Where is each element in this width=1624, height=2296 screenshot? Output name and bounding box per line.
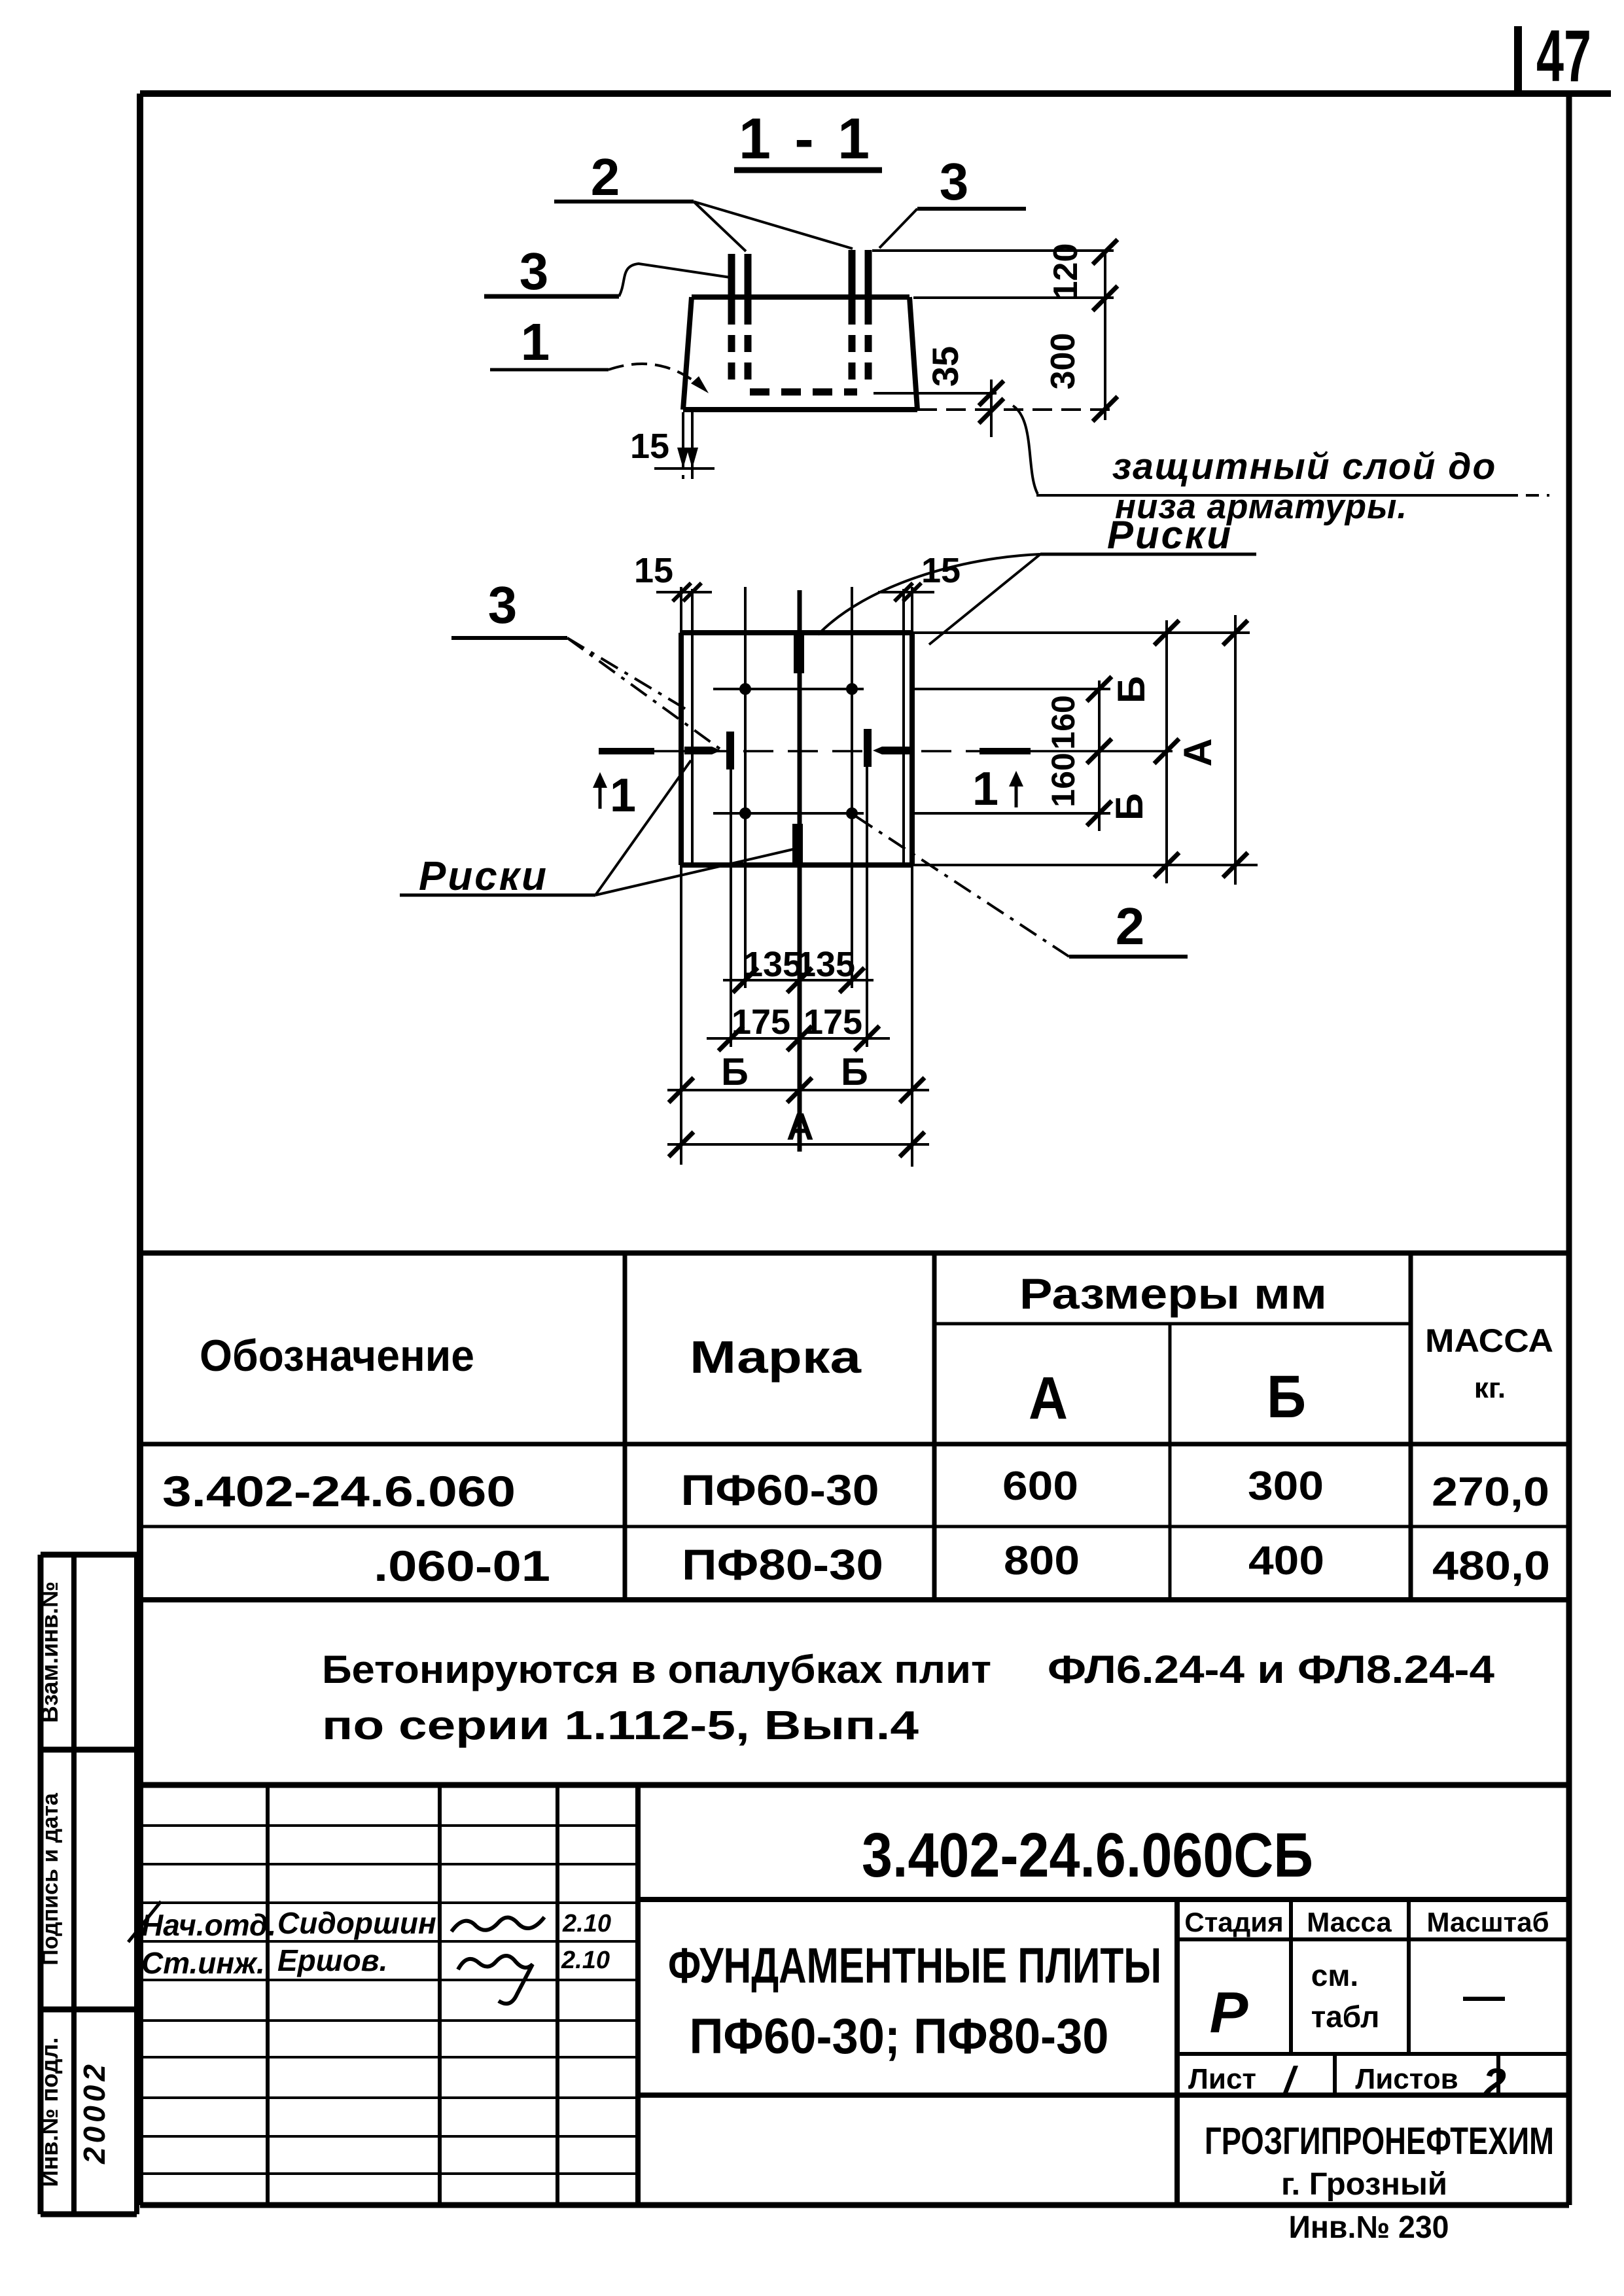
- svg-text:Стадия: Стадия: [1184, 1907, 1283, 1937]
- svg-text:160: 160: [1045, 752, 1082, 807]
- svg-text:Б: Б: [1110, 676, 1153, 703]
- svg-text:160: 160: [1045, 695, 1082, 749]
- svg-text:300: 300: [1248, 1464, 1324, 1509]
- svg-text:120: 120: [1047, 243, 1085, 300]
- svg-text:175: 175: [803, 1002, 862, 1042]
- svg-text:Риски: Риски: [1107, 513, 1233, 557]
- svg-text:Сидоршин: Сидоршин: [277, 1906, 436, 1940]
- svg-text:—: —: [1463, 1972, 1505, 2019]
- svg-text:Лист: Лист: [1188, 2063, 1256, 2095]
- svg-text:135: 135: [743, 945, 802, 984]
- svg-text:2: 2: [591, 148, 620, 206]
- svg-text:Риски: Риски: [419, 854, 548, 899]
- svg-text:270,0: 270,0: [1432, 1470, 1549, 1515]
- svg-text:Б: Б: [1267, 1364, 1306, 1430]
- svg-text:Листов: Листов: [1355, 2063, 1458, 2095]
- svg-text:Ершов.: Ершов.: [277, 1943, 387, 1977]
- svg-text:Обозначение: Обозначение: [200, 1331, 474, 1381]
- svg-text:135: 135: [796, 945, 855, 984]
- svg-text:Масса: Масса: [1307, 1907, 1392, 1937]
- svg-text:Бетонируются в опалубках плит: Бетонируются в опалубках плит: [322, 1648, 991, 1691]
- svg-text:800: 800: [1004, 1538, 1080, 1583]
- svg-text:см.: см.: [1311, 1958, 1358, 1992]
- svg-text:Инв.№ 230: Инв.№ 230: [1289, 2210, 1449, 2245]
- svg-text:3: 3: [520, 242, 549, 300]
- svg-text:Б: Б: [841, 1051, 868, 1093]
- svg-text:Размеры мм: Размеры мм: [1019, 1269, 1327, 1318]
- svg-text:ГРОЗГИПРОНЕФТЕХИМ: ГРОЗГИПРОНЕФТЕХИМ: [1205, 2120, 1554, 2163]
- svg-text:по серии 1.112-5, Вып.4: по серии 1.112-5, Вып.4: [322, 1703, 919, 1748]
- svg-text:600: 600: [1002, 1464, 1078, 1509]
- svg-text:1: 1: [521, 313, 550, 371]
- svg-text:35: 35: [925, 346, 966, 387]
- svg-text:Взам.инв.№: Взам.инв.№: [36, 1581, 63, 1723]
- svg-text:2.10: 2.10: [561, 1947, 610, 1974]
- svg-text:175: 175: [732, 1002, 790, 1042]
- svg-text:480,0: 480,0: [1432, 1544, 1550, 1589]
- svg-text:Р: Р: [1210, 1980, 1248, 2045]
- svg-text:кг.: кг.: [1474, 1372, 1506, 1404]
- svg-text:3.402-24.6.060СБ: 3.402-24.6.060СБ: [862, 1820, 1313, 1890]
- svg-text:г. Грозный: г. Грозный: [1281, 2167, 1447, 2202]
- svg-text:15: 15: [630, 427, 669, 466]
- svg-text:2: 2: [1116, 897, 1145, 955]
- svg-text:2.10: 2.10: [562, 1910, 611, 1937]
- svg-text:1: 1: [610, 769, 636, 822]
- svg-text:2: 2: [1482, 2060, 1506, 2107]
- svg-text:МАССА: МАССА: [1425, 1322, 1553, 1359]
- svg-text:ПФ80-30: ПФ80-30: [682, 1540, 883, 1589]
- svg-text:3: 3: [940, 152, 969, 211]
- svg-text:ПФ60-30: ПФ60-30: [681, 1466, 879, 1514]
- svg-text:15: 15: [634, 551, 673, 590]
- svg-text:300: 300: [1044, 333, 1082, 390]
- svg-text:1 - 1: 1 - 1: [739, 106, 874, 171]
- svg-text:400: 400: [1248, 1538, 1324, 1583]
- svg-text:Б: Б: [1108, 793, 1151, 821]
- svg-text:Ст.инж.: Ст.инж.: [141, 1946, 265, 1980]
- svg-text:Инв.№ подл.: Инв.№ подл.: [36, 2038, 63, 2187]
- svg-text:3: 3: [488, 576, 518, 634]
- svg-text:Б: Б: [721, 1051, 749, 1093]
- svg-text:3.402-24.6.060: 3.402-24.6.060: [162, 1467, 516, 1515]
- svg-text:47: 47: [1536, 15, 1591, 97]
- svg-text:.060-01: .060-01: [374, 1542, 550, 1590]
- svg-text:защитный слой до: защитный слой до: [1112, 446, 1496, 487]
- svg-text:А: А: [1029, 1365, 1068, 1432]
- svg-text:ФУНДАМЕНТНЫЕ ПЛИТЫ: ФУНДАМЕНТНЫЕ ПЛИТЫ: [668, 1938, 1161, 1994]
- svg-text:ПФ60-30; ПФ80-30: ПФ60-30; ПФ80-30: [690, 2009, 1109, 2064]
- svg-text:1: 1: [972, 763, 998, 815]
- svg-text:А: А: [1176, 738, 1220, 766]
- svg-text:табл: табл: [1311, 2000, 1380, 2034]
- svg-text:Подпись и дата: Подпись и дата: [38, 1792, 63, 1966]
- svg-text:15: 15: [921, 551, 961, 590]
- svg-text:ФЛ6.24-4 и ФЛ8.24-4: ФЛ6.24-4 и ФЛ8.24-4: [1048, 1648, 1495, 1691]
- svg-text:20002: 20002: [77, 2060, 111, 2164]
- svg-text:Марка: Марка: [690, 1332, 862, 1383]
- svg-text:Масштаб: Масштаб: [1426, 1907, 1549, 1937]
- svg-text:А: А: [786, 1106, 814, 1148]
- svg-text:Нач.отд.: Нач.отд.: [141, 1908, 276, 1942]
